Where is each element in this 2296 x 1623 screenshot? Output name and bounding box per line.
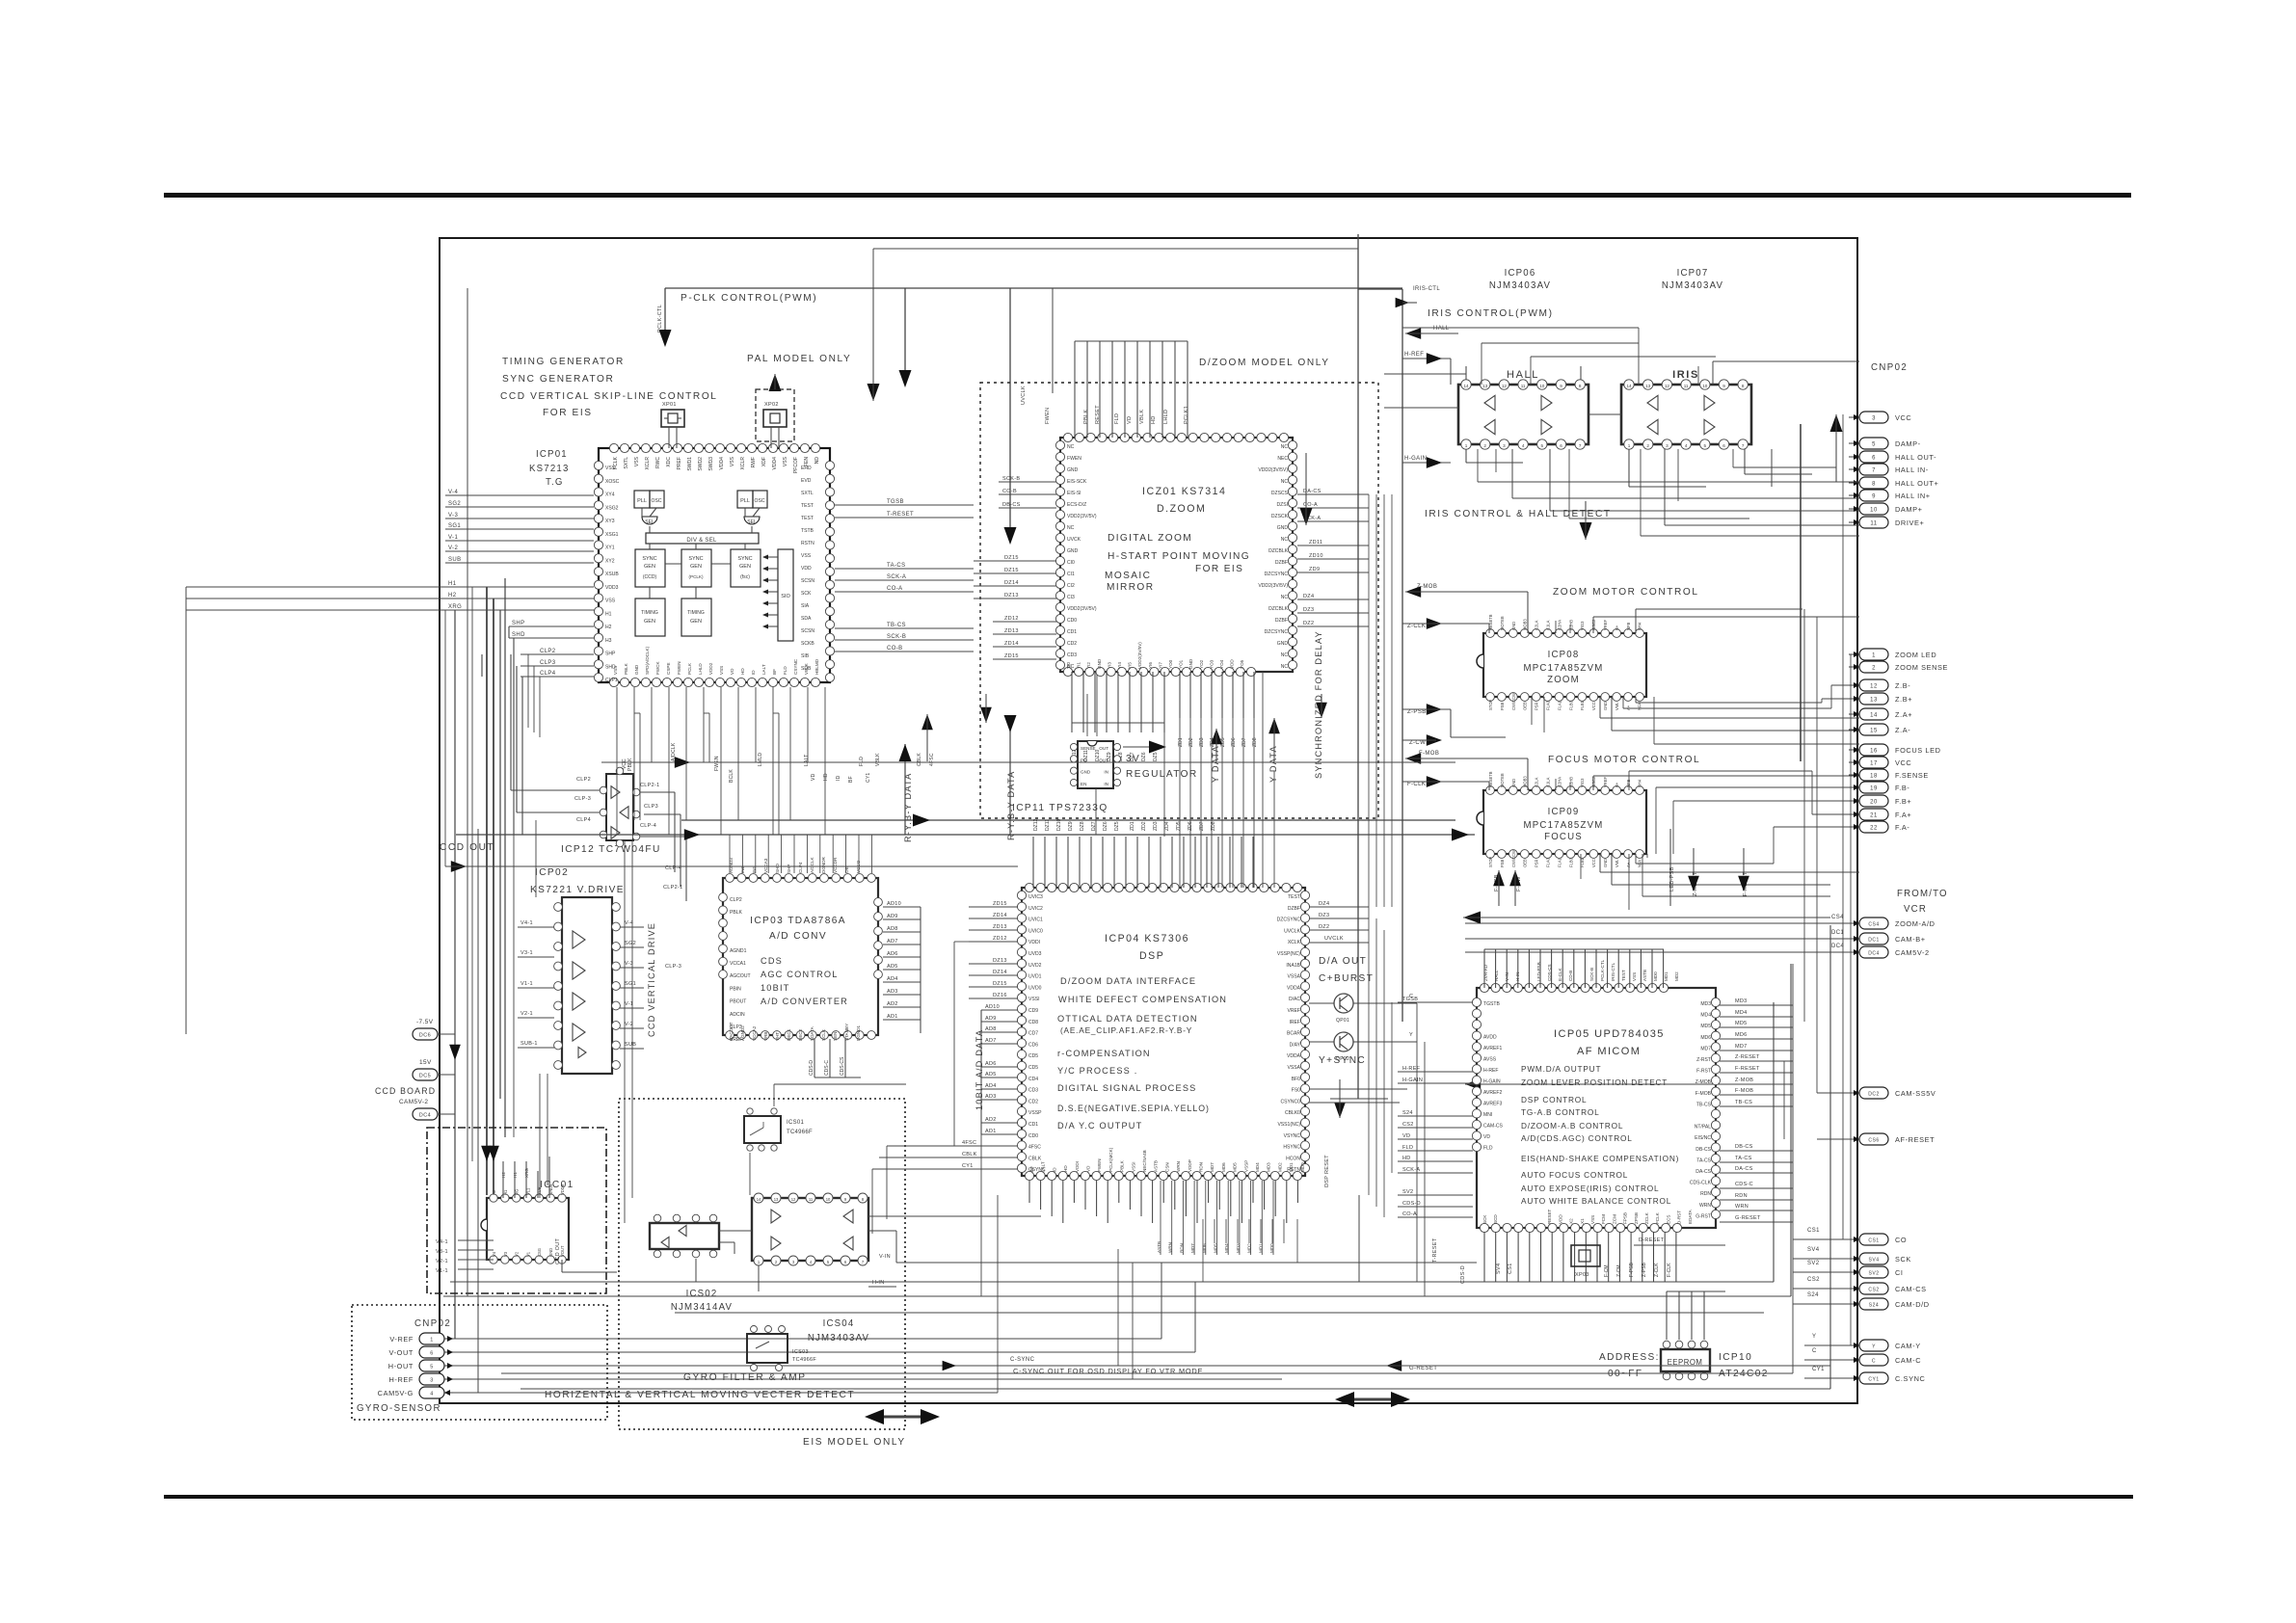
svg-text:C2HA: C2HA [1557, 620, 1562, 630]
svg-text:ICP07: ICP07 [1677, 268, 1709, 279]
svg-text:EIS(HAND-SHAKE COMPENSATION): EIS(HAND-SHAKE COMPENSATION) [1521, 1155, 1679, 1163]
svg-text:FLD: FLD [1114, 413, 1120, 424]
arrow HALL with label [1405, 328, 1421, 339]
svg-text:BCAR: BCAR [1287, 1031, 1300, 1037]
svg-text:PSR: PSR [1535, 859, 1539, 867]
svg-text:CO-A: CO-A [1303, 502, 1318, 508]
svg-text:ZCM: ZCM [1612, 1214, 1616, 1224]
svg-text:AD8: AD8 [985, 1026, 997, 1032]
arrow down col x1390 [1334, 1103, 1346, 1118]
svg-text:RWC: RWC [655, 457, 661, 468]
ICP01 bottom pin row [609, 678, 618, 686]
svg-text:PLL: PLL [740, 498, 750, 504]
svg-text:PSB: PSB [1500, 859, 1505, 867]
svg-text:19: 19 [1870, 786, 1878, 792]
svg-text:CAM-SS5V: CAM-SS5V [1895, 1089, 1936, 1098]
svg-text:MD0: MD0 [1653, 971, 1658, 981]
svg-text:XCLR: XCLR [740, 457, 746, 470]
svg-text:HD: HD [1151, 415, 1157, 424]
svg-text:PBLK: PBLK [627, 758, 633, 771]
svg-text:VDD2(3V/5V): VDD2(3V/5V) [1137, 642, 1142, 669]
svg-text:7: 7 [1872, 468, 1876, 474]
svg-text:ADCIN: ADCIN [730, 1012, 745, 1018]
svg-text:GND: GND [1511, 622, 1516, 630]
svg-text:ZD3: ZD3 [1199, 737, 1205, 747]
svg-text:CS4: CS4 [1831, 915, 1844, 920]
svg-text:AF MICOM: AF MICOM [1577, 1046, 1641, 1057]
svg-text:DZ4: DZ4 [1303, 594, 1314, 599]
svg-text:SV4: SV4 [1807, 1247, 1820, 1253]
svg-text:GEN: GEN [644, 619, 655, 625]
svg-text:SDATA: SDATA [810, 1025, 814, 1041]
ICS04 bottom pins [754, 1256, 763, 1265]
svg-text:VSS: VSS [783, 456, 788, 466]
ICZ01 bottom pins [1063, 667, 1072, 676]
svg-text:C+BURST: C+BURST [1319, 973, 1374, 984]
svg-text:CO-B: CO-B [887, 646, 903, 652]
bus horizontal mid 2 [456, 834, 1475, 836]
svg-text:10BIT A/D DATA: 10BIT A/D DATA [974, 1029, 984, 1110]
svg-text:PBLK: PBLK [730, 910, 743, 916]
IC ICP05 UPD784035 outline [1477, 988, 1716, 1228]
svg-text:CCD VERTICAL DRIVE: CCD VERTICAL DRIVE [647, 922, 656, 1037]
wire c-sync line [949, 1365, 1388, 1367]
svg-text:NC: NC [1281, 537, 1289, 543]
svg-text:SG2: SG2 [448, 501, 461, 507]
svg-text:AD2: AD2 [887, 1001, 898, 1007]
CCD BOARD dash-dot box ICC01 [427, 1128, 606, 1293]
svg-text:TEST: TEST [1288, 894, 1300, 900]
svg-text:SEN: SEN [833, 1032, 838, 1041]
wires zoom focus join [1653, 697, 1655, 744]
svg-text:CD1: CD1 [1067, 629, 1077, 635]
svg-text:3: 3 [1503, 443, 1506, 448]
svg-text:STOP: STOP [1488, 700, 1493, 710]
svg-text:OSC2: OSC2 [1591, 619, 1596, 630]
svg-text:V3-1: V3-1 [436, 1249, 448, 1255]
svg-text:F.A+: F.A+ [1895, 811, 1911, 819]
svg-text:SCK: SCK [1482, 1214, 1487, 1224]
svg-text:CD2: CD2 [1067, 641, 1077, 647]
svg-text:CAM5V-G: CAM5V-G [378, 1389, 414, 1397]
svg-text:15: 15 [1870, 729, 1878, 734]
ICP02 left pins [554, 903, 563, 912]
ICS02 op-amps [679, 1225, 686, 1236]
svg-text:WHITE DEFECT COMPENSATION: WHITE DEFECT COMPENSATION [1058, 995, 1227, 1004]
svg-text:YI0: YI0 [1066, 662, 1071, 669]
svg-text:VD: VD [1402, 1133, 1410, 1139]
svg-text:C: C [1872, 1359, 1876, 1365]
svg-text:VSSI: VSSI [1131, 1162, 1135, 1172]
bus bottom 3 [675, 1312, 1764, 1314]
svg-text:HD: HD [1063, 1165, 1068, 1172]
svg-text:MD4: MD4 [1700, 1013, 1711, 1019]
svg-text:CS1: CS1 [1868, 1238, 1879, 1244]
svg-text:-7.5V: -7.5V [416, 1019, 434, 1025]
svg-text:SG1: SG1 [448, 523, 461, 529]
svg-text:VDD2(3V/5V): VDD2(3V/5V) [1258, 583, 1288, 589]
svg-text:ICP06: ICP06 [1505, 268, 1536, 279]
svg-text:YI2: YI2 [1086, 662, 1091, 669]
svg-text:SXTL: SXTL [624, 457, 629, 469]
svg-text:OEB: OEB [1523, 702, 1528, 710]
wires far left verticals 2 [444, 610, 446, 866]
IC ICP10 AT24C02 EEPROM outline [1661, 1349, 1710, 1371]
svg-text:NEC/SA4B: NEC/SA4B [1142, 1150, 1147, 1172]
svg-text:GND: GND [1603, 859, 1608, 867]
svg-text:HD: HD [1402, 1156, 1411, 1161]
ICP03 top pins [726, 874, 734, 883]
svg-text:C1LA: C1LA [1546, 620, 1551, 630]
svg-text:XP02: XP02 [764, 402, 779, 408]
svg-text:DZ9: DZ9 [1068, 821, 1074, 831]
svg-text:AD8: AD8 [887, 926, 898, 932]
svg-text:1: 1 [430, 1338, 434, 1344]
svg-text:PBLK: PBLK [1083, 410, 1089, 424]
svg-text:AD4: AD4 [887, 976, 898, 982]
wires regulator [1095, 788, 1097, 835]
svg-text:AD5: AD5 [887, 964, 898, 970]
wires ICP03 top to bus [729, 835, 731, 873]
svg-text:LHLD: LHLD [698, 663, 703, 675]
ICP01 left input wires SHP SHD [509, 625, 594, 627]
svg-text:QP01: QP01 [1336, 1018, 1349, 1024]
svg-text:TC4966F: TC4966F [787, 1130, 813, 1135]
svg-text:6: 6 [430, 1351, 434, 1357]
svg-text:DEC2: DEC2 [798, 1028, 803, 1041]
svg-text:VDD2(3V/5V): VDD2(3V/5V) [1067, 606, 1097, 612]
svg-text:DZSI: DZSI [1277, 502, 1289, 508]
svg-text:OSC: OSC [652, 498, 662, 504]
ICP01 SEL gate 1 [642, 517, 657, 524]
svg-text:CDS-D: CDS-D [1460, 1265, 1466, 1284]
svg-text:FCLK: FCLK [613, 456, 619, 469]
svg-text:NJM3403AV: NJM3403AV [1662, 280, 1723, 291]
svg-text:6: 6 [1560, 443, 1562, 448]
ICP05 bottom wires [1483, 1232, 1485, 1282]
svg-text:DAMP-: DAMP- [1895, 439, 1921, 448]
svg-text:TIMING: TIMING [687, 610, 705, 616]
svg-text:VCCA3: VCCA3 [763, 858, 768, 873]
pills serial group [1859, 1234, 1888, 1245]
svg-text:AF-RESET: AF-RESET [1895, 1135, 1935, 1144]
svg-text:PREF: PREF [677, 457, 682, 469]
svg-text:MOTEB: MOTEB [1500, 616, 1505, 630]
svg-text:VCCA2: VCCA2 [752, 1025, 757, 1041]
ICP12 inverters [611, 786, 620, 799]
ICP03 bottom pins [726, 1031, 734, 1040]
svg-text:CY1: CY1 [962, 1163, 974, 1169]
ICP01 OSC box 1 [650, 491, 664, 508]
ICP12 output wires [640, 791, 675, 793]
wires middle column x1450 gap lines [1368, 494, 1370, 907]
svg-text:2: 2 [1483, 443, 1486, 448]
svg-text:MD6: MD6 [1735, 1032, 1748, 1038]
svg-text:XSUB: XSUB [605, 572, 619, 577]
svg-text:BH4: BH4 [1638, 779, 1642, 787]
svg-text:H-REF: H-REF [389, 1375, 414, 1384]
svg-text:AVREF3: AVREF3 [1483, 1102, 1502, 1107]
svg-text:HBLMD: HBLMD [814, 658, 819, 675]
svg-text:VDD2: VDD2 [708, 662, 713, 675]
ICP01 OSC box 2 [753, 491, 767, 508]
svg-text:ZD8: ZD8 [1252, 737, 1258, 747]
ICP05 left pins [1472, 998, 1481, 1006]
svg-text:22: 22 [1870, 826, 1878, 832]
svg-text:F.B-: F.B- [1895, 784, 1909, 792]
svg-text:OUT: OUT [1099, 746, 1108, 751]
svg-text:NC: NC [1281, 652, 1289, 658]
svg-text:D/ZOOM-A.B CONTROL: D/ZOOM-A.B CONTROL [1521, 1122, 1623, 1131]
svg-text:TEST: TEST [1621, 970, 1626, 981]
svg-text:CW/CCW: CW/CCW [1511, 850, 1516, 867]
svg-text:CSN: CSN [1164, 1162, 1169, 1172]
svg-text:GND: GND [1067, 467, 1079, 473]
svg-text:EN: EN [1081, 782, 1086, 786]
svg-text:D/A Y.C OUTPUT: D/A Y.C OUTPUT [1057, 1121, 1142, 1131]
svg-text:MD1: MD1 [1289, 1162, 1294, 1172]
svg-text:VHT: VHT [775, 1032, 780, 1041]
svg-text:DZ4: DZ4 [1319, 901, 1329, 907]
svg-text:OSC: OSC [755, 498, 765, 504]
svg-text:AGND1: AGND1 [730, 948, 747, 954]
svg-text:8: 8 [1579, 384, 1582, 388]
svg-text:GEN: GEN [644, 564, 655, 570]
svg-text:FWEN: FWEN [1045, 408, 1051, 424]
svg-text:CSYNC: CSYNC [793, 658, 798, 675]
CNP02 wires right [453, 1338, 1161, 1340]
svg-text:SCK-B: SCK-B [1002, 476, 1020, 482]
svg-text:12: 12 [1665, 384, 1670, 388]
svg-text:VML: VML [1615, 702, 1619, 710]
ICP06 HALL op-amps [1484, 395, 1495, 410]
wire CLP chain to ICP12 [481, 654, 483, 677]
svg-text:VSS: VSS [1632, 972, 1637, 981]
svg-text:DC1: DC1 [1831, 930, 1844, 936]
ICP05 bottom pins [1480, 1223, 1488, 1232]
svg-text:CD0: CD0 [1028, 1133, 1038, 1139]
wires HALL IRIS mesh [1477, 449, 1479, 482]
svg-text:FWCK: FWCK [655, 661, 660, 675]
svg-text:CLP2-1: CLP2-1 [640, 783, 660, 788]
svg-text:VDDA: VDDA [1287, 1053, 1301, 1059]
IC ICS01 TC4966F outline [744, 1116, 781, 1143]
svg-text:OEB: OEB [1523, 859, 1528, 867]
ICP01 SEL gate 2 [744, 517, 760, 524]
svg-text:ICS01: ICS01 [787, 1120, 804, 1126]
svg-text:CY1: CY1 [1812, 1367, 1825, 1372]
svg-text:VDD2(3V/5V): VDD2(3V/5V) [1067, 514, 1097, 519]
svg-text:CLP4: CLP4 [576, 817, 591, 823]
svg-text:SCSN: SCSN [801, 578, 814, 584]
svg-text:VCR: VCR [1904, 904, 1927, 915]
svg-text:XSG1: XSG1 [605, 532, 619, 538]
svg-text:ICS03: ICS03 [792, 1349, 809, 1355]
svg-text:UVIC1: UVIC1 [1028, 918, 1043, 923]
svg-text:GND: GND [1188, 658, 1193, 669]
arrow down left [449, 1045, 461, 1060]
pills vcr group [1859, 918, 1888, 929]
svg-text:TGSB: TGSB [1402, 997, 1418, 1002]
svg-text:ZD7: ZD7 [1199, 821, 1205, 831]
svg-text:GYRO FILTER & AMP: GYRO FILTER & AMP [683, 1372, 807, 1383]
svg-text:3: 3 [430, 1378, 434, 1384]
svg-text:PCLK: PCLK [687, 662, 692, 675]
wire SHP SHD drop [508, 626, 510, 638]
svg-text:CS6: CS6 [1868, 1138, 1879, 1144]
pill CS6 AF-RESET [1859, 1133, 1888, 1145]
svg-text:CBLK: CBLK [962, 1152, 977, 1157]
svg-text:AVREF1: AVREF1 [1483, 1046, 1502, 1051]
svg-text:HD: HD [823, 773, 829, 781]
ICZ01 right pins [1288, 440, 1296, 449]
svg-text:MD3: MD3 [1700, 1001, 1711, 1007]
svg-text:FOR EIS: FOR EIS [1195, 564, 1243, 574]
ICP01 SIO block [778, 549, 793, 641]
svg-text:UVIC3: UVIC3 [1028, 894, 1043, 900]
svg-text:RDN: RDN [1199, 1162, 1204, 1172]
svg-text:XDC: XDC [666, 457, 672, 467]
svg-text:VDD4: VDD4 [772, 457, 778, 470]
bus right vertical x1899 [1829, 925, 1831, 1389]
svg-text:r-COMPENSATION: r-COMPENSATION [1057, 1049, 1151, 1058]
svg-text:UVIC0: UVIC0 [1028, 928, 1043, 934]
svg-text:AVSS: AVSS [1483, 1057, 1497, 1063]
svg-text:SYNC GENERATOR: SYNC GENERATOR [502, 374, 614, 385]
svg-text:DC4: DC4 [1868, 951, 1880, 957]
svg-text:CD0: CD0 [1067, 618, 1077, 624]
svg-text:MOB3: MOB3 [1523, 776, 1528, 787]
svg-text:NT/PAL: NT/PAL [1695, 1125, 1711, 1131]
svg-text:CCD VERTICAL SKIP-LINE CONTROL: CCD VERTICAL SKIP-LINE CONTROL [500, 391, 718, 402]
svg-text:PCLK(MCK): PCLK(MCK) [1108, 1147, 1113, 1172]
svg-text:D/AC: D/AC [1289, 997, 1300, 1002]
svg-text:VD: VD [1127, 416, 1133, 424]
svg-text:X1: X1 [1580, 1218, 1585, 1224]
svg-text:CDS-C: CDS-C [824, 1060, 830, 1076]
svg-text:C2HA: C2HA [1557, 777, 1562, 787]
ICP01 TIMING GEN 1 [635, 599, 665, 636]
svg-text:T.G: T.G [546, 477, 564, 488]
ICP03 CDS-D wires [814, 1039, 815, 1078]
transistor QP01 [1334, 994, 1353, 1013]
svg-text:TB-CS: TB-CS [887, 623, 906, 628]
svg-text:13: 13 [1870, 698, 1878, 704]
wires icp12 to gyro verticals [624, 840, 626, 1223]
svg-text:SHO: SHO [775, 864, 780, 873]
ICP01 internal wires [641, 508, 643, 517]
svg-text:V-4: V-4 [448, 490, 458, 495]
svg-text:PBIN: PBIN [730, 986, 741, 992]
svg-text:SEL: SEL [747, 519, 757, 525]
gyro G-RESET arrow [1386, 1360, 1402, 1371]
svg-text:V-2: V-2 [448, 545, 458, 551]
ICP03 left pins [719, 893, 728, 902]
svg-text:Y DATA: Y DATA [1268, 745, 1278, 783]
svg-text:LALT: LALT [1041, 1161, 1046, 1172]
svg-text:DSP RESET: DSP RESET [1324, 1155, 1330, 1187]
svg-text:DZ15: DZ15 [993, 981, 1007, 987]
svg-text:VSS: VSS [719, 666, 724, 675]
svg-text:NJM3403AV: NJM3403AV [1489, 280, 1551, 291]
svg-text:FLA1: FLA1 [1557, 700, 1562, 710]
IC ICP12 TC7W04FU outline [606, 774, 633, 840]
ICP01 PLL box 1 [634, 491, 650, 508]
svg-text:SG2: SG2 [625, 941, 636, 946]
bus horizontal mid 0 [601, 761, 1455, 763]
wire P-CLK horizontal [665, 287, 1402, 289]
svg-text:TGSTB: TGSTB [1483, 1001, 1500, 1007]
bus bottom long horizontal 2 [450, 1281, 1774, 1283]
svg-text:AUTO WHITE BALANCE CONTROL: AUTO WHITE BALANCE CONTROL [1521, 1197, 1671, 1206]
svg-text:16: 16 [1870, 749, 1878, 755]
svg-text:FLA0: FLA0 [1546, 857, 1551, 867]
svg-text:C1LA: C1LA [1546, 777, 1551, 787]
svg-text:VSS1(NC): VSS1(NC) [1277, 1122, 1300, 1128]
svg-text:VD: VD [1086, 1165, 1091, 1172]
svg-text:BCLK: BCLK [729, 769, 734, 783]
svg-text:PLL: PLL [637, 498, 647, 504]
wires gyro to AF [896, 1262, 1477, 1264]
svg-text:14: 14 [1463, 384, 1469, 388]
svg-text:ND: ND [814, 457, 820, 465]
svg-text:SYNC: SYNC [642, 556, 656, 562]
ICP01 SYNC GEN PCLK [681, 549, 711, 587]
svg-text:AD7: AD7 [887, 939, 898, 945]
svg-text:MOSAIC: MOSAIC [1105, 571, 1151, 581]
svg-text:Z.A-: Z.A- [1895, 726, 1910, 734]
svg-text:RESET: RESET [1547, 1209, 1552, 1224]
svg-text:FEN: FEN [804, 457, 810, 466]
svg-text:10: 10 [826, 1197, 831, 1202]
svg-text:ICP10: ICP10 [1719, 1352, 1752, 1363]
ICP04 bottom wires [1028, 1181, 1030, 1203]
IC ICP02 KS7221 V.DRIVE outline [562, 897, 612, 1074]
svg-text:CD-B: CD-B [1568, 971, 1573, 981]
svg-text:D-RESET: D-RESET [1639, 1237, 1665, 1243]
ICP04 bottom pins [1025, 1171, 1033, 1180]
svg-text:DRIVE+: DRIVE+ [1895, 519, 1924, 527]
svg-text:PAL MODEL ONLY: PAL MODEL ONLY [747, 354, 851, 364]
svg-text:Z-CLK: Z-CLK [1654, 1263, 1660, 1277]
svg-text:HALL IN+: HALL IN+ [1895, 492, 1931, 500]
wire vertical drop to ICC01 H-lines [486, 587, 488, 1195]
svg-text:PSB: PSB [1500, 702, 1505, 710]
svg-text:CLP4: CLP4 [540, 671, 556, 677]
svg-text:CCD BOARD: CCD BOARD [375, 1086, 436, 1096]
svg-text:C2LA: C2LA [1535, 777, 1539, 787]
svg-text:ZD5: ZD5 [1176, 821, 1182, 831]
svg-text:3: 3 [1666, 443, 1669, 448]
svg-text:H-GAIN: H-GAIN [1402, 1078, 1423, 1083]
left edge H lines [186, 586, 445, 588]
svg-text:NFB: NFB [1626, 623, 1631, 630]
svg-text:PBLK: PBLK [1120, 1159, 1125, 1172]
svg-text:FLD: FLD [1483, 1146, 1493, 1152]
svg-text:GND: GND [1277, 525, 1289, 531]
svg-text:CAM5V-2: CAM5V-2 [399, 1099, 428, 1105]
svg-text:SV4: SV4 [1868, 1258, 1879, 1264]
svg-text:VCCDR: VCCDR [833, 857, 838, 873]
wires lower bus to DSP [887, 1145, 958, 1147]
svg-text:F.A-: F.A- [1895, 823, 1909, 832]
svg-text:ICP03 TDA8786A: ICP03 TDA8786A [750, 916, 846, 926]
svg-text:4: 4 [430, 1392, 434, 1397]
svg-text:ZOOM: ZOOM [1547, 675, 1580, 685]
svg-text:CS2: CS2 [1868, 1288, 1879, 1293]
bus right vertical x1858 [1790, 964, 1792, 1296]
svg-text:HCON: HCON [1286, 1156, 1300, 1161]
